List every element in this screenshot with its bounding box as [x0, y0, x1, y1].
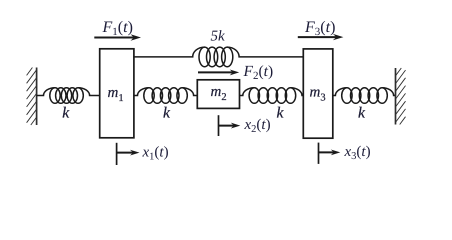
svg-text:k: k — [62, 105, 70, 122]
spring k (wall to m1) — [37, 88, 100, 104]
label k spring3 — [277, 105, 285, 122]
svg-text:F2(t): F2(t) — [243, 63, 274, 82]
svg-text:5k: 5k — [211, 29, 226, 45]
mass m1 — [100, 49, 134, 138]
displacement indicator x1 — [117, 143, 140, 165]
force arrow F2 — [198, 70, 239, 76]
spring k (m2 to m3) — [240, 88, 304, 104]
label x1(t) — [142, 145, 169, 163]
mass m2 — [197, 80, 239, 109]
wall left — [27, 68, 37, 126]
label F2(t) — [243, 63, 274, 82]
displacement indicator x3 — [319, 143, 341, 164]
label 5k — [211, 29, 226, 45]
svg-text:k: k — [358, 105, 366, 122]
wall right — [396, 68, 406, 125]
svg-text:k: k — [277, 105, 285, 122]
label F1(t) — [102, 19, 133, 38]
label k spring4 — [358, 105, 366, 122]
label F3(t) — [304, 19, 335, 38]
label m1 — [108, 85, 124, 104]
label k spring1 — [62, 105, 70, 122]
mass m3 — [303, 49, 333, 138]
label x3(t) — [344, 144, 371, 162]
svg-text:F1(t): F1(t) — [102, 19, 133, 38]
svg-text:x2(t): x2(t) — [244, 117, 271, 135]
label k spring2 — [163, 105, 171, 122]
svg-text:k: k — [163, 105, 171, 122]
wire top rail left (m1 to 5k spring) + spring 5k (m1 to m3) — [133, 47, 303, 67]
label m3 — [310, 85, 326, 104]
label m2 — [211, 84, 227, 103]
spring k (m1 to m2) — [133, 88, 197, 104]
svg-text:F3(t): F3(t) — [304, 19, 335, 38]
spring k (m3 to wall) — [333, 88, 396, 104]
svg-text:x1(t): x1(t) — [142, 145, 169, 163]
displacement indicator x2 — [219, 115, 241, 136]
svg-text:x3(t): x3(t) — [344, 144, 371, 162]
force arrow F1 — [94, 34, 141, 40]
force arrow F3 — [298, 34, 344, 40]
label x2(t) — [244, 117, 271, 135]
